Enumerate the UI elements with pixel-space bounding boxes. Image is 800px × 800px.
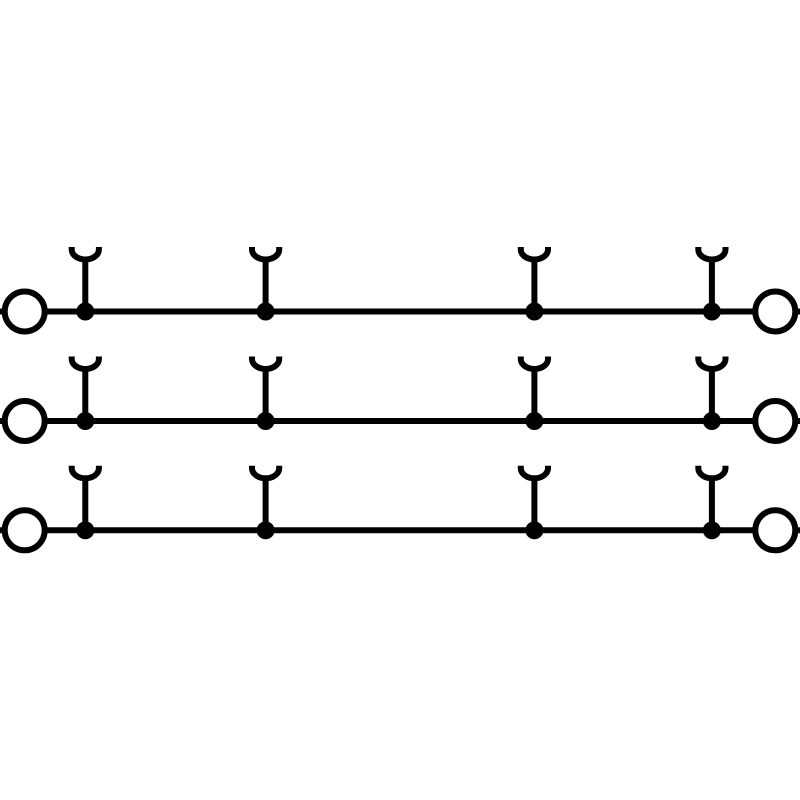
clamp contact row 1 col 4	[698, 247, 725, 312]
wire row 3 bus conductor	[0, 527, 800, 533]
clamp contact row 2 col 4	[698, 357, 725, 422]
clamp contact row 3 col 1	[72, 466, 99, 531]
junction dot row 1 col 1	[76, 303, 94, 321]
clamp contact row 3 col 4	[698, 466, 725, 531]
junction dot row 2 col 3	[525, 412, 543, 430]
junction dot row 2 col 2	[257, 412, 275, 430]
terminal circle row 1 right	[755, 292, 795, 332]
terminal circle row 3 right	[755, 510, 795, 550]
junction dot row 2 col 4	[703, 412, 721, 430]
clamp contact row 1 col 1	[72, 247, 99, 312]
clamp contact row 1 col 3	[521, 247, 548, 312]
clamp contact row 2 col 3	[521, 357, 548, 422]
clamp contact row 3 col 3	[521, 466, 548, 531]
junction dot row 3 col 4	[703, 521, 721, 539]
terminal circle row 2 left	[5, 401, 45, 441]
terminal circle row 2 right	[755, 401, 795, 441]
clamp contact row 2 col 1	[72, 357, 99, 422]
junction dot row 1 col 2	[257, 303, 275, 321]
junction dot row 3 col 2	[257, 521, 275, 539]
wire row 2 bus conductor	[0, 418, 800, 424]
junction dot row 2 col 1	[76, 412, 94, 430]
junction dot row 1 col 3	[525, 303, 543, 321]
terminal circle row 1 left	[5, 292, 45, 332]
junction dot row 1 col 4	[703, 303, 721, 321]
wire row 1 bus conductor	[0, 309, 800, 315]
clamp contact row 3 col 2	[252, 466, 279, 531]
junction dot row 3 col 1	[76, 521, 94, 539]
clamp contact row 2 col 2	[252, 357, 279, 422]
junction dot row 3 col 3	[525, 521, 543, 539]
terminal circle row 3 left	[5, 510, 45, 550]
clamp contact row 1 col 2	[252, 247, 279, 312]
